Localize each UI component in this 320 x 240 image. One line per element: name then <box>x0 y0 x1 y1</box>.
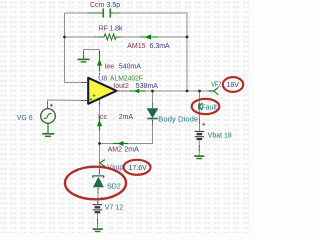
battery V7 plus <box>100 197 103 200</box>
junction node at RF/Ccm branch <box>63 36 66 39</box>
pin stub marks (maroon) capacitor Ccm <box>87 12 120 14</box>
voltage pin Vsup <box>100 160 106 167</box>
wire: Vbat branch vertical <box>199 91 201 131</box>
Schottky diode SD2 triangle (pointing up) <box>94 178 104 187</box>
svg-text:Body Diode: Body Diode <box>158 116 198 123</box>
svg-text:17.6V: 17.6V <box>129 165 148 172</box>
current arrow AM2 (left) <box>114 143 129 145</box>
voltage pin VF2 <box>209 87 219 94</box>
resistor RF leads <box>98 36 120 38</box>
svg-text:1.8k: 1.8k <box>109 25 123 32</box>
svg-text:6.3mA: 6.3mA <box>150 43 171 50</box>
svg-text:VF2: VF2 <box>211 81 221 88</box>
svg-text:Iee: Iee <box>104 64 114 71</box>
svg-text:Ccm: Ccm <box>90 2 105 9</box>
wire: feedback loop left vertical <box>64 13 66 83</box>
Vbat ground <box>194 155 204 157</box>
svg-text:RF: RF <box>99 25 108 32</box>
current arrow Iout2 (left) <box>130 90 146 92</box>
VG ground <box>47 123 49 133</box>
pin stub marks op-amp output <box>118 90 128 92</box>
svg-text:Iout2: Iout2 <box>113 83 129 90</box>
body diode cathode bar <box>147 118 157 120</box>
wire: RF row right (through AM15) <box>120 36 188 38</box>
pin stub marks V7 <box>97 198 99 224</box>
wire: op-amp V- chain down <box>99 98 101 163</box>
svg-text:VG 6: VG 6 <box>17 115 33 122</box>
svg-text:V7 12: V7 12 <box>105 204 123 211</box>
wire: inverting input <box>65 82 88 84</box>
resistor RF zigzag <box>104 34 116 40</box>
wire: SD2 to V7 battery <box>97 188 99 205</box>
wire: body-diode branch vertical <box>152 91 154 108</box>
current arrow Icc (up) <box>99 117 101 130</box>
ground near op-amp <box>83 56 85 60</box>
wire: capacitor Ccm to right vertical, down to output <box>111 13 188 91</box>
battery Vbat plus <box>202 123 205 126</box>
svg-text:Icc: Icc <box>98 114 107 121</box>
svg-text:3.5p: 3.5p <box>107 2 121 9</box>
current arrow AM15 (left) <box>140 36 158 38</box>
op-amp U8 triangle <box>88 78 116 104</box>
pin stub marks VG <box>47 103 49 109</box>
wire: VG to non-inverting input <box>48 100 88 109</box>
svg-text:SD2: SD2 <box>107 184 121 191</box>
svg-text:540mA: 540mA <box>119 64 142 71</box>
svg-text:Vbat 18: Vbat 18 <box>208 133 232 140</box>
svg-text:2mA: 2mA <box>119 114 134 121</box>
op-amp plus marks <box>90 94 96 101</box>
pin stub marks Vbat <box>198 119 200 151</box>
op-amp input pin tips <box>85 83 88 101</box>
wire: output row <box>117 90 213 92</box>
junction node at body diode branch <box>151 90 154 93</box>
wire: op-amp V+ to ground <box>84 50 100 57</box>
pin stub marks op-amp V+/V- <box>99 70 101 107</box>
junction node at Vbat branch <box>198 90 201 93</box>
svg-text:AM15: AM15 <box>127 43 145 50</box>
pin stub marks resistor RF <box>94 36 123 38</box>
svg-text:AM2: AM2 <box>108 147 123 154</box>
wire: RF row left <box>65 36 99 38</box>
pin stub marks body diode <box>152 103 154 125</box>
battery Vbat <box>195 130 204 132</box>
capacitor Ccm plates <box>103 9 110 18</box>
V7 ground <box>93 228 103 230</box>
svg-text:2mA: 2mA <box>124 147 139 154</box>
pin stub marks op-amp inputs <box>81 83 87 101</box>
svg-text:18V: 18V <box>227 82 240 89</box>
wire: top wire to capacitor Ccm <box>65 12 104 14</box>
annotation ellipse around 17.6V <box>124 160 151 175</box>
VG source circle <box>41 109 56 124</box>
body diode triangle <box>147 109 157 118</box>
current arrow Iee (up) <box>99 51 101 71</box>
junction node at AM15/right vertical <box>186 36 189 39</box>
svg-text:ALM2402F: ALM2402F <box>110 75 143 82</box>
annotation ellipse around Fault <box>192 99 220 114</box>
svg-text:538mA: 538mA <box>136 83 159 90</box>
svg-text:Fault: Fault <box>201 104 217 111</box>
annotation ellipse around SD2 <box>65 167 126 200</box>
junction node at feedback/output <box>186 90 189 93</box>
capacitor Ccm leads <box>87 12 119 14</box>
wire: V7 to ground <box>97 213 99 229</box>
junction node at AM2 branch <box>98 142 101 145</box>
VG sine glyph <box>44 114 52 119</box>
VG plus <box>50 104 53 107</box>
battery V7 <box>93 204 102 206</box>
Schottky diode SD2 cathode bar with hooks <box>93 176 104 178</box>
annotation ellipse around 18V <box>223 77 243 92</box>
wire: Vbat to ground <box>198 140 200 156</box>
svg-text:U8: U8 <box>98 75 107 82</box>
voltage pin Fault (fork on wire) <box>199 103 203 110</box>
pin stub marks SD2 <box>98 169 100 193</box>
pin stub marks ground near op-amp <box>83 52 85 56</box>
